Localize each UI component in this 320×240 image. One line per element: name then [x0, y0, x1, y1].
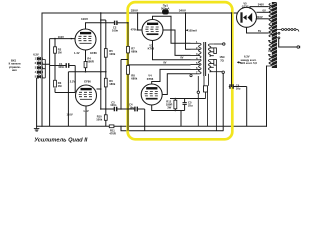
Tr1 secondary links — [210, 44, 217, 72]
wire: C1 to V2 grid — [74, 66, 76, 93]
resistor R2 — [54, 47, 57, 53]
svg-text:330V: 330V — [131, 9, 139, 13]
wire: R5 to R6 — [105, 57, 107, 78]
wire: 0V to Tr2 — [256, 11, 268, 13]
wire: V3 grid from rail x137.6 — [138, 13, 142, 30]
svg-text:KT66: KT66 — [148, 46, 155, 50]
svg-text:100n: 100n — [110, 103, 116, 107]
wire: V3 cathode to OPT stub4 — [153, 41, 191, 60]
svg-text:310V: 310V — [256, 15, 262, 19]
wire: HT drop under yellow right edge — [231, 13, 233, 87]
transformer Tr1 primary winding — [199, 43, 202, 74]
resistor R10 — [104, 115, 107, 121]
capacitor C6 — [229, 84, 247, 88]
svg-text:1.4V: 1.4V — [74, 51, 80, 55]
wire: V1 cathode down — [85, 50, 87, 72]
wire: R6 bottom to grid row — [105, 87, 107, 115]
svg-text:6.3V: 6.3V — [33, 52, 39, 56]
svg-text:470k: 470k — [131, 27, 137, 31]
wire: lower common rail — [121, 126, 223, 131]
wire: grid-leak chain x127 — [127, 23, 129, 131]
capacitor C4 — [133, 107, 145, 112]
wire: V3 screen to OPT stub3 — [163, 30, 191, 55]
wire: BK1 riser to grid wire — [42, 39, 50, 127]
svg-text:110V: 110V — [58, 35, 64, 39]
wire: mains input — [279, 39, 297, 47]
svg-text:Усилитель Quad II: Усилитель Quad II — [34, 138, 88, 144]
svg-text:100n: 100n — [58, 65, 64, 69]
wire: screen feed A x101.5 — [101, 13, 106, 109]
wire: left branch to ground rail — [67, 72, 69, 127]
wire: V1 plate to C2 — [86, 23, 115, 29]
svg-text:105mA: 105mA — [188, 28, 197, 32]
wire: V5 heater 5V to Tr2 — [247, 27, 269, 33]
wire: C6 to ground drop — [246, 87, 248, 127]
svg-text:ния: ния — [12, 69, 17, 72]
svg-text:110V: 110V — [81, 17, 89, 21]
wire: BK1 pin bus — [42, 60, 45, 78]
wire: V2 plate stub — [97, 88, 101, 90]
capacitor C3 — [114, 107, 132, 111]
tube V2 EF86 — [76, 85, 97, 106]
svg-text:680k: 680k — [131, 76, 137, 80]
Tr1 left stubs — [191, 43, 200, 74]
wire: link column to lower rail — [215, 65, 217, 131]
label 105mA with arrow — [186, 29, 188, 31]
resistor R4 — [84, 62, 87, 68]
Tr1 frame terminal — [197, 91, 199, 93]
resistor R11 (in ground rail) — [109, 125, 114, 128]
transformer Tr1 secondary winding — [208, 44, 211, 72]
resistor R12 — [174, 100, 177, 109]
resistor R6 — [104, 78, 107, 87]
svg-text:EF86: EF86 — [90, 51, 97, 55]
highlight box (yellow) — [128, 2, 233, 139]
svg-text:0V: 0V — [180, 56, 183, 60]
svg-text:5V: 5V — [258, 29, 261, 33]
connector BK1 — [37, 57, 40, 79]
svg-text:0V: 0V — [263, 9, 266, 13]
svg-text:0V: 0V — [163, 61, 166, 65]
wire: BK1 bottom pin down to ground rail — [37, 78, 39, 126]
wire: top B+ rail — [42, 12, 237, 14]
svg-text:16u: 16u — [236, 86, 241, 90]
svg-text:100k: 100k — [109, 52, 115, 56]
capacitor C1 — [50, 63, 76, 67]
svg-text:GZ32: GZ32 — [242, 5, 249, 9]
svg-text:680R: 680R — [87, 60, 93, 64]
wire: stub left from chain to x121 drop — [121, 60, 128, 110]
wire: C4 to V4 cathode drop — [144, 109, 146, 131]
transformer Tr1 core — [204, 42, 206, 76]
svg-text:3W: 3W — [167, 105, 171, 109]
svg-text:KT66: KT66 — [147, 77, 154, 81]
output terminal top — [214, 43, 223, 45]
resistor R3 — [54, 80, 57, 87]
Tr2 right winding dots — [278, 32, 280, 34]
voltage selector taps — [277, 29, 299, 32]
resistor R5 — [104, 49, 107, 58]
wire: 310V to Tr2 — [256, 18, 268, 20]
svg-text:2.2V: 2.2V — [70, 80, 76, 84]
wire: V2 cathode down to ground — [85, 106, 87, 126]
wire: V3 plate to OPT stub1 — [153, 16, 191, 43]
capacitor C5 — [183, 99, 187, 111]
transformer Tr2 windings — [267, 4, 272, 67]
wire: R10 to rail — [105, 120, 107, 126]
svg-text:16u: 16u — [129, 106, 134, 110]
pin numbers BK1 — [35, 57, 44, 79]
wire: Tr2 heater CT to ground — [266, 66, 268, 126]
wire: R2 R3 chain vertical — [55, 39, 75, 93]
wire: bottom ground rail — [37, 125, 267, 127]
capacitor C2 — [115, 21, 128, 25]
tube V1 EF86 — [75, 29, 96, 50]
resistor R8 — [127, 66, 130, 75]
output terminal bottom — [214, 71, 222, 73]
svg-text:100n: 100n — [112, 28, 118, 32]
wire: V4 plate to OPT stub6 — [152, 69, 191, 84]
tube V4 KT66 — [141, 84, 162, 105]
wire: V5 anode 340V to Tr2 — [250, 7, 268, 9]
wire: V4 cathode node — [152, 105, 170, 111]
wire: V4 screen to OPT stub7 — [162, 74, 190, 95]
svg-text:EF86: EF86 — [84, 80, 91, 84]
ground — [34, 126, 39, 131]
node dot rail/231 — [231, 12, 233, 14]
wire: V1 grid wire — [50, 38, 76, 40]
wire: B+ drop to OPT stub2 — [186, 13, 191, 49]
fuse 500mA — [161, 4, 169, 15]
wire: cathode row y71.8 — [68, 71, 105, 73]
resistor R7 — [127, 46, 130, 53]
svg-text:180k: 180k — [109, 82, 115, 86]
wire: C3 coupling — [101, 108, 114, 110]
svg-text:340V: 340V — [179, 8, 187, 12]
tube V3 KT66 — [142, 20, 163, 41]
svg-text:25u: 25u — [188, 104, 193, 108]
rectifier V5 — [237, 7, 257, 27]
svg-text:340V: 340V — [258, 3, 264, 7]
svg-text:100k: 100k — [96, 117, 102, 121]
svg-text:15Ω: 15Ω — [219, 55, 225, 59]
Tr1 bottom leads — [198, 74, 208, 92]
svg-text:110V: 110V — [67, 112, 73, 116]
transformer Tr2 core — [272, 2, 277, 68]
svg-text:500мА: 500мА — [161, 6, 169, 10]
svg-text:ВК1 конт. 5,6: ВК1 конт. 5,6 — [240, 61, 257, 65]
wire: left feedback wire — [41, 13, 43, 126]
wire: R12/C5 nodes — [170, 99, 206, 127]
wire: row y64.6 chain node to OPT stub5 — [128, 64, 191, 66]
svg-text:680k: 680k — [131, 49, 137, 53]
Tr1 terminal numbers — [196, 40, 198, 75]
svg-text:470R: 470R — [109, 132, 115, 136]
wire: bottom terminal to lower rail — [222, 73, 224, 130]
